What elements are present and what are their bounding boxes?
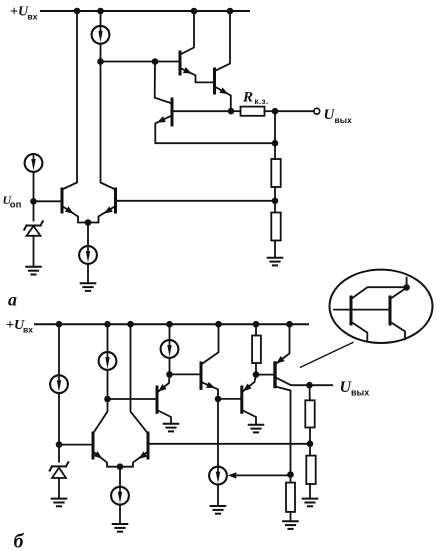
node: rail dot b6 <box>253 321 260 328</box>
node: callout collector dot <box>403 284 410 291</box>
wire: VD2 to ground <box>58 478 60 499</box>
wire: node B3 to Q5 base <box>170 373 202 375</box>
wire: bottom +Uvx rail <box>35 323 308 325</box>
transistor Q3 (PNP current limiter) <box>171 99 174 125</box>
svg-text:вых: вых <box>351 388 369 398</box>
wire: Q6 emitter from node B5 <box>242 375 256 392</box>
wire: rail to resistor R3 <box>255 324 257 335</box>
wire: rail to current source I4 <box>58 324 60 375</box>
transistor T2 (diff pair right) <box>114 189 117 212</box>
wire: T2 emitter to tail node <box>88 206 116 223</box>
resistor R4 (divider b top) <box>305 400 314 427</box>
svg-text:оп: оп <box>10 200 22 211</box>
wire: node B5 to Q7 base <box>256 374 275 376</box>
current source I6 (tail b) <box>111 487 129 505</box>
label Uop <box>3 193 22 211</box>
ground (R6) <box>283 521 298 529</box>
wire: Q1 emitter to Q2 base <box>180 68 215 82</box>
wire: R5 to ground <box>309 484 311 499</box>
transistor TA (callout left) <box>350 297 353 324</box>
wire: feedback node to R5 <box>309 444 311 456</box>
callout pointer line <box>301 342 354 367</box>
wire: R6 to ground <box>290 512 292 521</box>
wire: N1 to Rkz <box>231 110 241 112</box>
T3 emitter arrow <box>94 451 105 461</box>
wire: node B1 down to diff-pair right collector <box>101 62 116 190</box>
svg-text:R: R <box>242 90 253 106</box>
wire: feedback line to T4 base <box>148 443 310 445</box>
label Uvyx (top output) <box>324 107 352 125</box>
wire: control line to I8 <box>233 474 291 476</box>
Q1 emitter arrow <box>183 67 193 76</box>
current source I8 (controlled) <box>209 467 227 485</box>
output terminal (open circle) <box>314 108 320 114</box>
transistor T1 (diff pair left) <box>61 189 64 212</box>
resistor Rkz <box>241 107 265 116</box>
wire: callout collector stub <box>406 278 408 288</box>
label +Uvx (bottom supply) <box>6 318 33 335</box>
wire: feedback line to diff-pair right base <box>116 200 276 202</box>
resistor R2 (divider bottom) <box>271 213 280 241</box>
node B2 junction dot <box>104 396 111 403</box>
node: rail dot 1 <box>74 8 81 15</box>
wire: N2 down to node N3 <box>274 111 276 143</box>
wire: TB lower lead <box>390 322 405 339</box>
node: tail-b junction dot <box>117 463 124 470</box>
node N2 junction dot <box>272 108 279 115</box>
svg-text:+U: +U <box>10 5 29 20</box>
node: output dot <box>306 382 313 389</box>
current source I3 (tail) <box>79 246 97 264</box>
node: tail junction dot <box>85 219 92 226</box>
wire: Q4 emitter from node B3 <box>157 374 170 392</box>
wire: Q1 collector to rail <box>180 11 194 55</box>
wire: R3 to node B5 <box>255 363 257 375</box>
wire: Q7 emitter upper to output node <box>276 378 310 386</box>
wire: node B2 to Q4 base <box>108 398 158 400</box>
wire: junction down to Q3 collector <box>155 61 172 103</box>
wire: Q6 collector to ground <box>242 410 256 425</box>
ground (tail I3) <box>81 283 96 291</box>
transistor Q7 (composite output) <box>273 363 276 387</box>
wire: Uop to diff-pair left base <box>34 200 63 202</box>
label +Uvx (top supply) <box>10 5 38 22</box>
wire: tail to current source I6 <box>119 467 121 487</box>
current source I7 (level shift bias) <box>161 340 179 358</box>
node: rail dot b5 <box>215 321 222 328</box>
current source I1 (reference bias) <box>25 154 43 172</box>
ground (Q6 collector) <box>249 425 264 433</box>
wire: node B6 to resistor R6 <box>290 475 292 483</box>
svg-text:вых: вых <box>335 115 352 125</box>
wire: I1 to Uop node <box>33 172 35 201</box>
wire: Q2 collector to rail <box>215 11 231 71</box>
wire: R1 to R2 <box>274 187 276 213</box>
svg-text:вх: вх <box>28 12 38 22</box>
node N3 junction dot <box>272 140 279 147</box>
wire: top +Uvx rail <box>41 10 249 12</box>
wire: I8 to ground <box>217 485 219 506</box>
resistor R3 (bias) <box>252 336 261 364</box>
node: divider tap dot <box>272 198 279 205</box>
wire: Q3 emitter to output line <box>155 116 275 144</box>
resistor R5 (divider b bottom) <box>306 456 315 484</box>
wire: Uop to zener VD1 <box>33 201 35 220</box>
node: zener/base junction dot <box>56 441 63 448</box>
transistor Q5 (NPN follower) <box>200 363 203 389</box>
current source I4 (zener bias) <box>50 375 68 393</box>
Q4 emitter arrow (into bar, PNP) <box>156 384 167 394</box>
wire: output stub <box>310 384 333 386</box>
ground (divider b) <box>303 499 318 507</box>
wire: node B4 down to controlled source I8 <box>217 399 219 466</box>
label Rkz <box>242 90 269 107</box>
resistor R6 (emitter load) <box>286 483 295 512</box>
wire: node B1 to base of Q1 <box>101 61 181 63</box>
wire: N2 to output terminal <box>275 110 314 112</box>
wire: I6 to ground <box>119 505 121 524</box>
wire: Q4 collector to ground <box>157 410 171 424</box>
resistor R1 (divider top) <box>271 159 280 187</box>
node: rail dot b7 <box>286 321 293 328</box>
current source I5 (diff load) <box>99 352 117 370</box>
wire: R4 to feedback node <box>309 428 311 444</box>
node: rail dot 3 <box>191 8 198 15</box>
node B4 junction dot <box>215 396 222 403</box>
label a (figure part) <box>8 290 17 310</box>
node: rail dot 4 <box>227 8 234 15</box>
ground (zener VD1) <box>26 267 41 275</box>
wire: TA lower lead <box>351 322 367 340</box>
transistor Q1 (NPN darlington driver) <box>179 52 182 74</box>
T4 emitter arrow <box>137 451 148 461</box>
Q7 collector arrow (into bar) <box>274 356 285 366</box>
ground (divider) <box>268 258 283 266</box>
svg-text:вх: вх <box>23 325 33 335</box>
wire: rail down to diff-pair right collector <box>131 324 149 433</box>
wire: output node to divider R4 <box>309 385 311 400</box>
wire: I4 to Uop-b node <box>58 394 60 445</box>
wire: node B4 to Q6 base <box>218 398 242 400</box>
zener diode VD2 <box>50 462 69 478</box>
wire: R2 to ground <box>274 241 276 258</box>
Q6 emitter arrow (into bar, PNP) <box>241 383 252 393</box>
ground (Q4 collector) <box>164 424 179 432</box>
wire: Rkz to node N2 <box>265 110 276 112</box>
wire: node B2 down to diff-pair left collector <box>93 399 108 434</box>
svg-text:б: б <box>14 531 25 550</box>
transistor Q4 (PNP level shifter) <box>156 387 159 412</box>
wire: node to diff-pair left base <box>59 444 93 446</box>
zener diode VD1 <box>24 221 43 236</box>
Q2 emitter arrow <box>219 87 229 97</box>
node: rail dot b1 <box>56 321 63 328</box>
wire: T4 emitter to tail node <box>120 452 148 467</box>
node B3 junction dot <box>166 371 173 378</box>
wire: T3 emitter to tail node <box>93 452 120 467</box>
wire: rail to current source I5 <box>107 324 109 351</box>
wire: rail to diff-pair left collector <box>62 11 77 190</box>
node: rail dot 2 <box>97 8 104 15</box>
node B6 junction dot <box>287 471 294 478</box>
T1 emitter arrow <box>65 206 76 216</box>
wire: I2 to node B1 <box>100 44 102 61</box>
ground (zener VD2) <box>52 499 67 507</box>
node: feedback tap dot <box>307 441 314 448</box>
wire: I3 to ground <box>87 265 89 284</box>
callout ellipse (composite transistor detail) <box>330 270 433 343</box>
label b (figure part) <box>14 531 25 550</box>
wire: tail to current source I3 <box>87 223 89 246</box>
control arrowhead at I8 <box>228 472 236 478</box>
node N1 junction dot <box>228 108 235 115</box>
Q5 emitter arrow <box>206 382 216 391</box>
wire: Q3 base line <box>172 110 231 112</box>
wire: VD1 to ground <box>33 236 35 267</box>
wire: Q7 emitter lower to node B6 <box>276 387 291 475</box>
node B5 junction dot <box>253 371 260 378</box>
ground (tail I6) <box>113 524 128 532</box>
wire: Q2 emitter to node N1 <box>215 87 231 112</box>
label Uvyx (bottom output) <box>340 379 370 398</box>
wire: Q5 collector to rail <box>201 324 219 364</box>
wire: Q5 emitter to node B4 <box>201 382 218 399</box>
wire: N3 to divider resistor R1 <box>274 143 276 159</box>
transistor TB (callout right) <box>389 297 392 324</box>
wire: rail to current source I7 <box>169 324 171 339</box>
wire: Q7 collector to rail <box>275 324 290 364</box>
transistor T4 (diff pair b right) <box>147 433 150 458</box>
wire: TB upper lead to common dot <box>390 288 407 299</box>
ground (I8) <box>211 506 226 514</box>
current source I2 <box>92 26 110 44</box>
svg-text:к.з.: к.з. <box>255 97 269 106</box>
svg-text:а: а <box>8 290 17 310</box>
transistor Q2 (NPN output follower) <box>213 69 216 93</box>
wire: callout base line <box>334 309 390 311</box>
node B1 junction dot <box>97 58 104 65</box>
node: rail dot b4 <box>166 321 173 328</box>
T2 emitter arrow <box>102 206 113 216</box>
Q3 emitter arrow (into bar, PNP) <box>155 116 165 125</box>
node Uop junction dot <box>30 198 37 205</box>
node: rail dot b2 <box>104 321 111 328</box>
node: Q1 base junction dot <box>152 58 159 65</box>
transistor Q6 (PNP follower) <box>240 387 243 412</box>
wire: TA upper lead to common dot <box>351 287 405 299</box>
node: rail dot b3 <box>127 321 134 328</box>
wire: node to zener VD2 <box>58 445 60 462</box>
transistor T3 (diff pair b left) <box>92 433 95 458</box>
wire: rail to current source I2 <box>100 11 102 25</box>
wire: T1 emitter to tail node <box>62 206 88 223</box>
wire: I7 to node B3 <box>169 359 171 375</box>
wire: I5 to node B2 <box>107 371 109 400</box>
